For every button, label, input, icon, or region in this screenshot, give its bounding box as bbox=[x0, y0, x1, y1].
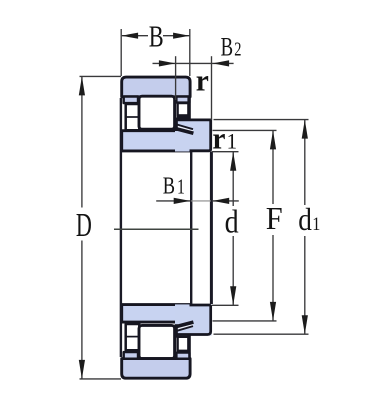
cage cell right bbox=[178, 103, 189, 116]
label F bbox=[266, 200, 283, 236]
outer ring top band bbox=[122, 77, 190, 97]
B1 right arrow bbox=[213, 198, 230, 204]
roller top bbox=[139, 96, 175, 129]
F bottom extension line bbox=[213, 320, 277, 322]
svg-text:r: r bbox=[196, 63, 209, 98]
B left arrow bbox=[122, 33, 139, 39]
rib right and bottom edge bbox=[175, 305, 211, 335]
roller bottom bbox=[139, 325, 175, 358]
svg-text:r: r bbox=[212, 121, 225, 156]
left face line bbox=[120, 98, 122, 357]
d top arrow bbox=[230, 152, 236, 171]
label d1 bbox=[298, 203, 320, 237]
B2 left arrow bbox=[159, 60, 176, 66]
outer ring right flange bbox=[176, 97, 189, 103]
d1 top extension line bbox=[214, 119, 309, 121]
label B1 bbox=[163, 172, 185, 199]
d bottom extension line bbox=[212, 304, 239, 306]
outer ring left flange bbox=[124, 97, 138, 104]
label D bbox=[76, 207, 92, 244]
svg-text:1: 1 bbox=[227, 129, 237, 154]
cage box left bottom bbox=[126, 324, 140, 350]
d1 top arrow bbox=[302, 120, 308, 139]
D bottom extension line bbox=[80, 378, 122, 380]
B1 dimension line bbox=[156, 200, 190, 202]
outer ring right face strip bbox=[187, 96, 190, 120]
d dimension line bbox=[232, 152, 234, 206]
outer ring right face strip bottom bbox=[187, 335, 190, 360]
inner ring bottom band bbox=[122, 305, 190, 323]
F top extension line bbox=[213, 129, 277, 131]
d bottom arrow bbox=[230, 286, 236, 305]
svg-text:d: d bbox=[225, 204, 239, 241]
B dimension line bbox=[122, 35, 148, 37]
B right arrow bbox=[173, 33, 190, 39]
B2 left extension line bbox=[175, 56, 177, 100]
D bottom arrow bbox=[79, 360, 85, 379]
B2 right arrow bbox=[213, 60, 230, 66]
label d bbox=[225, 204, 239, 241]
shaft axis centerline bbox=[114, 228, 199, 230]
rib top edge bbox=[190, 304, 211, 307]
rib gap light line bottom bbox=[176, 324, 193, 329]
rib leg top edge bottom bbox=[176, 326, 193, 331]
svg-text:B: B bbox=[221, 33, 233, 62]
roller left guide edge bottom bbox=[175, 324, 178, 338]
outer ring left flange bottom bbox=[124, 352, 138, 359]
svg-text:1: 1 bbox=[312, 213, 320, 235]
svg-text:D: D bbox=[76, 207, 92, 244]
D top extension line bbox=[80, 75, 122, 77]
roller right guide edge bbox=[175, 118, 178, 132]
D dimension line bbox=[81, 76, 83, 207]
rib gap light line bbox=[176, 126, 193, 131]
svg-text:1: 1 bbox=[177, 175, 185, 199]
label B2 bbox=[221, 33, 242, 62]
D top arrow bbox=[79, 76, 85, 95]
label B bbox=[149, 19, 164, 53]
B2 dimension line bbox=[153, 62, 234, 64]
B right extension line bbox=[189, 29, 191, 76]
svg-text:B: B bbox=[149, 19, 164, 53]
B left extension line bbox=[120, 29, 122, 76]
d1 bottom arrow bbox=[302, 315, 308, 334]
svg-text:2: 2 bbox=[234, 37, 241, 60]
angle ring (rib) top fill bbox=[175, 119, 212, 152]
rib left edge stub bbox=[175, 119, 178, 127]
rib right face line bbox=[210, 152, 213, 304]
label r1 bbox=[212, 121, 237, 156]
cage box left (two cells) bbox=[126, 104, 140, 130]
label r bbox=[196, 63, 209, 98]
rib leg bottom edge bbox=[176, 124, 193, 129]
inner ring right face line bbox=[190, 152, 192, 304]
inner ring top band bbox=[122, 131, 190, 151]
svg-text:F: F bbox=[266, 200, 283, 236]
cage left divider bbox=[126, 116, 140, 118]
F bottom arrow bbox=[270, 302, 276, 321]
outer ring bottom band bbox=[122, 359, 190, 379]
rib top edge bbox=[175, 119, 211, 122]
d1 bottom extension line bbox=[214, 333, 309, 335]
cage cell right bottom bbox=[178, 337, 189, 351]
rib right and bottom edge bbox=[190, 119, 211, 151]
d top extension line bbox=[212, 151, 239, 153]
rib left edge stub bottom bbox=[175, 329, 178, 336]
B2 right extension line bbox=[211, 56, 213, 120]
svg-text:d: d bbox=[298, 203, 312, 237]
cage left divider bottom bbox=[126, 336, 140, 338]
F dimension line bbox=[272, 130, 274, 204]
dark filler under right cell bbox=[177, 114, 190, 121]
B1 left arrow bbox=[174, 198, 191, 204]
angle ring (rib) bottom fill bbox=[175, 304, 212, 335]
F top arrow bbox=[270, 130, 276, 149]
inner ring cone edge bbox=[176, 129, 194, 134]
inner ring cone edge bottom bbox=[176, 322, 194, 327]
d1 dimension line bbox=[304, 120, 306, 205]
B1 middle faint segment bbox=[191, 200, 211, 202]
svg-text:B: B bbox=[163, 172, 175, 199]
outer ring right flange bottom bbox=[176, 353, 189, 359]
